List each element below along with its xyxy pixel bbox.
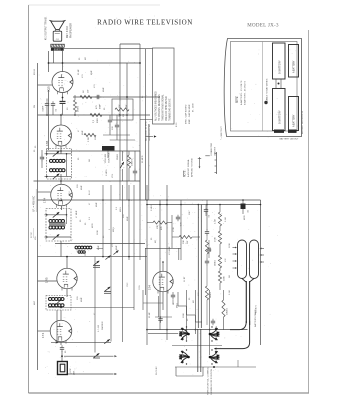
capacitor C18 [206,229,208,232]
capacitor C20 [160,316,162,319]
junction dot y367 [213,366,215,368]
svg-text:05 MF: 05 MF [149,311,151,318]
svg-text:2MEG: 2MEG [117,154,119,160]
resistor R15 vertical [205,286,208,300]
wire y248.3 seg [145,247,181,249]
svg-text:MFD: MFD [92,223,94,228]
svg-text:1M: 1M [229,275,231,278]
svg-text:MEG: MEG [120,207,122,212]
speaker SP1 cone [51,21,64,29]
svg-text:CONTROL: CONTROL [109,152,111,163]
battery A1 rect [289,45,299,78]
wire x143 vertical [142,290,144,310]
wire transformer primary down [48,51,50,72]
wire right bus corner x260 [260,200,262,345]
svg-text:1MEG: 1MEG [215,260,217,266]
svg-text:470: 470 [82,74,84,78]
wire caps to bus [46,99,48,102]
svg-text:PADDER: PADDER [101,321,104,330]
wire L9 leads [76,248,80,250]
wire x158 vertical [157,296,159,317]
capacitor C17 [212,319,214,322]
arrowhead y356 [114,355,117,357]
svg-text:USE 1000 OHM METER: USE 1000 OHM METER [166,96,168,121]
resistor R13 vertical 10 MEG [222,300,225,317]
svg-text:.05: .05 [248,209,250,213]
cable center channel through switch [197,329,199,372]
wire bus y115 [38,114,151,116]
capacitor C3 [52,101,54,104]
wire staircase 2 [186,306,188,315]
battery case inner rect [231,42,298,132]
capacitor C4 100MMF [109,118,111,121]
capacitor C5 [116,123,118,126]
svg-text:05: 05 [65,350,67,353]
svg-text:TO CHASSIS. READINGS: TO CHASSIS. READINGS [158,94,161,121]
svg-text:OSC: OSC [85,251,87,256]
svg-text:3-7 465: 3-7 465 [98,324,100,332]
svg-text:B+67: B+67 [89,189,91,195]
svg-text:ALL VOLTAGES MEASURED: ALL VOLTAGES MEASURED [155,91,158,121]
svg-text:1T4: 1T4 [41,332,45,338]
svg-text:05: 05 [189,297,191,300]
wire V4 bottom [66,289,68,297]
svg-text:MODEL JX-3: MODEL JX-3 [247,24,279,29]
svg-text:1W: 1W [88,89,90,93]
resistor R10 vertical [218,255,221,268]
capacitor C13B plates [104,291,111,293]
svg-text:MF: MF [85,56,87,60]
wire transformer leads down [53,51,55,63]
wire staircase 1 [177,292,179,306]
wire V2 plate up [60,115,62,125]
speaker neck [55,29,57,31]
svg-text:12 BT: 12 BT [184,276,186,282]
resistor R5 10 MEG v [127,155,130,168]
osc coil L7 bobbin [49,297,52,300]
tuning gang C13B arrow [105,287,111,291]
svg-text:10: 10 [67,107,69,110]
resistor R9 vertical [218,231,221,244]
battery B2 rect [273,89,286,131]
svg-text:B1931: B1931 [54,48,62,51]
svg-text:APPLIED TO GRID: APPLIED TO GRID [191,158,194,177]
wire V4 grid left [38,280,58,282]
battery cable bend conductor A to bus [230,321,246,330]
trimmer C14 arrow [94,353,100,357]
svg-text:*: * [224,223,226,224]
svg-text:1R5: 1R5 [45,277,49,283]
wire y151 bus [46,150,140,152]
svg-text:B1931: B1931 [34,68,36,75]
wire x134 vertical [133,185,135,310]
svg-text:CO: CO [56,39,60,41]
dash mark near note [205,155,210,157]
volume control dark pot [102,146,115,151]
cable plug pins right [260,248,262,250]
wire box around V6 right [178,248,180,260]
wire V6 plate up [162,262,164,271]
svg-text:SHOWN IN OFF POSITION: SHOWN IN OFF POSITION [211,369,213,395]
svg-text:RADIO WIRE TELEVISION: RADIO WIRE TELEVISION [97,19,193,27]
svg-text:A 456 KC SIGNAL: A 456 KC SIGNAL [187,158,190,177]
svg-text:47: 47 [78,129,80,132]
svg-text:3Q5: 3Q5 [47,86,51,92]
wire V3 grid [38,191,52,193]
wire switch row divider y345.5 [172,345,222,347]
wire left bus x48.5 mid [48,90,50,150]
pot wiper arrow [120,162,124,168]
svg-text:1 MEG: 1 MEG [106,169,108,176]
wire x160 vertical [159,200,161,330]
small coil L9 [75,246,78,249]
svg-text:47 MMF: 47 MMF [76,210,78,218]
svg-text:B BATTERY: B BATTERY [279,110,282,124]
svg-text:ALL COND. IN MFD: ALL COND. IN MFD [145,121,148,141]
wire x147 vertical [146,185,148,345]
switch S1 pole 4 (bottom-right spider) [210,351,218,357]
wire bus y374 [67,373,114,375]
wire x42 [41,150,43,156]
svg-text:3.3: 3.3 [116,206,118,210]
wire bus y243.5 [55,243,145,245]
svg-text:2W: 2W [187,240,189,244]
wire y367 seg [175,366,256,368]
wire bus y256.6 [38,256,148,258]
svg-text:*: * [150,121,152,122]
svg-text:100: 100 [112,126,114,130]
svg-text:CONNECTED: CONNECTED [211,142,213,156]
wire x186.5 vertical [186,290,188,340]
svg-text:.01MF: .01MF [43,105,45,112]
wire V2 to IFT2 [60,146,62,154]
svg-text:VOLUME: VOLUME [105,153,107,163]
tube V5 1T4 [50,320,72,342]
tube V2 1S5 [51,125,72,146]
cable shield double line [197,205,199,329]
resistor R11 vertical [218,271,221,283]
wire vertical drop x120 [119,44,121,181]
junction dot [48,62,50,64]
wire x129 vertical [128,185,130,260]
IFT1 lead top y214.8 [45,214,67,216]
svg-text:05: 05 [80,219,82,222]
wire IFT2 right vertical [66,154,68,177]
svg-text:.01: .01 [43,156,45,160]
wire x103 vertical [102,185,104,257]
svg-text:ANT.: ANT. [73,370,76,375]
wire x181 vertical [180,200,182,260]
page border frame bottom [29,392,310,394]
junction dots bus y115 [46,114,48,116]
trimmer C23 arrow [105,255,110,259]
svg-text:VOL: VOL [112,173,114,178]
svg-text:220K: 220K [229,243,231,248]
wire y333.6 segment [148,333,178,335]
wire x167 vertical [166,185,168,340]
resistor R12 vertical 470K [205,240,208,254]
osc coil arrow [54,299,62,307]
svg-text:UNLESS NOTED: UNLESS NOTED [149,124,151,141]
svg-text:470K: 470K [210,247,212,252]
svg-text:BATTERY CABLE: BATTERY CABLE [254,309,257,327]
svg-text:27-32: 27-32 [31,232,33,238]
svg-text:100: 100 [77,184,79,188]
wire y317 segment [155,316,172,318]
capacitor C9 470MMF [177,215,179,218]
wire staircase 3 [194,315,196,322]
wire x117 v [116,115,118,123]
IFT1 coil L4 bobbin [49,219,52,222]
wire x120 lower [119,181,121,200]
resistor R14 15K inside box [115,108,129,111]
svg-text:1MEG: 1MEG [78,106,80,112]
tube V1 3Q5 [52,72,73,93]
wire x110 v [109,115,111,118]
wire x209.6 vertical [209,290,211,355]
svg-text:456: 456 [35,236,37,240]
svg-text:I.F. = 456 KC: I.F. = 456 KC [32,196,36,212]
battery plug P2 [288,130,297,133]
wire x238 vertical stub [237,360,239,367]
svg-text:100K: 100K [183,313,185,318]
svg-text:MMF: MMF [96,202,98,207]
battery B1 rect [273,43,286,79]
switch S1 pole 3 (bottom-left spider) [181,351,189,357]
svg-text:100: 100 [77,296,79,300]
wire B+ feed from transformer to note box [64,48,153,50]
capacitor C21 dark under V1 [62,93,64,102]
IFT1 coil L5 bobbin [49,226,52,229]
svg-text:MFD: MFD [244,215,246,220]
svg-text:05: 05 [104,107,106,110]
resistor R4 3.3MEG [84,133,96,136]
svg-text:B+: B+ [142,95,144,98]
svg-text:A BATTERY - 1.5 VOLTS: A BATTERY - 1.5 VOLTS [240,80,243,105]
capacitor C10 [208,247,210,250]
chassis stub symbol [199,157,201,167]
wire left bus x37.5 [37,63,39,370]
svg-text:TUNING 540-1620 KC: TUNING 540-1620 KC [170,98,172,121]
wire bottom links x223 [223,290,225,300]
tube V6 1S4 [153,271,173,291]
svg-text:1S4: 1S4 [148,285,152,290]
svg-text:465: 465 [161,226,163,230]
IFT1 trimmer arrow bottom [53,234,60,239]
wire bus y329.6 [147,329,248,331]
wire C7 leads [134,151,136,170]
svg-text:MMF - CAP IN MMF: MMF - CAP IN MMF [188,104,191,124]
svg-text:MMF: MMF [82,130,84,135]
wire screen line y97 [73,96,160,98]
wire x122.5 vertical [122,185,124,342]
wire resistor chain links [219,205,221,213]
svg-text:1K: 1K [83,90,85,93]
svg-text:CHASSIS: CHASSIS [214,146,217,156]
svg-text:15K: 15K [157,225,159,229]
svg-text:B BATTERY - 45 VOLTS: B BATTERY - 45 VOLTS [244,81,247,105]
page border frame right [308,30,310,393]
svg-text:05: 05 [85,222,87,225]
resistor R6 15K [153,221,167,224]
wire IFT1 bottom [60,241,62,257]
resistor R8 vertical [218,212,221,226]
wire V5 bottom [60,342,62,345]
wire y135 seg [103,134,130,136]
battery A2 rect [289,97,299,131]
capacitor C7 [134,169,136,172]
svg-text:3.3M: 3.3M [225,217,227,222]
svg-text:20K: 20K [183,240,185,244]
cable plug pins left [235,247,237,249]
svg-text:2.2M: 2.2M [215,219,217,224]
wire plate line V1 [49,62,141,64]
wire V5 grid left [38,330,51,332]
svg-text:470K: 470K [215,237,217,242]
resistor R2 grid leak vertical [73,100,76,112]
wire R5 leads [128,151,130,155]
svg-text:10MEG: 10MEG [132,158,134,166]
wire C16 to loop [61,351,63,362]
wire vertical x140 [139,44,141,200]
wire y222.5 stubs [147,222,153,224]
svg-text:1W: 1W [126,105,128,108]
svg-text:MMF: MMF [91,70,93,75]
svg-text:MF: MF [193,299,195,303]
dial cord bracket [216,152,218,174]
IFT2 junction dots [46,153,48,155]
wire IFT1 right vertical [66,209,68,225]
svg-text:15K: 15K [119,104,121,108]
IFT2 trimmer arrow bottom [53,174,60,179]
svg-text:1MEG: 1MEG [210,292,212,298]
battery cable trunk [245,281,247,323]
IF transformer IFT2 dashed box [47,149,72,180]
svg-text:MMF: MMF [81,297,83,302]
capacitor C1 470MMF [95,96,98,98]
battery cable converge [242,279,254,283]
wire switch bracket [175,367,177,376]
svg-text:2.2M: 2.2M [229,290,231,295]
svg-text:100K: 100K [224,276,226,281]
wire vertical x145.5 [145,49,147,200]
svg-text:MEG: MEG [113,227,115,232]
wire vol pot leads [107,151,109,159]
IFT1 junction dots [46,214,48,216]
capacitor C2 0.1MFD [46,101,48,104]
svg-text:MMF: MMF [127,216,129,221]
svg-text:BATTERY LAYOUT B-99: BATTERY LAYOUT B-99 [301,110,304,134]
IFT2 coil L2 primary bobbin [50,159,53,162]
wire x207 vertical [206,200,208,230]
IFT1 lead bottom y237 [45,236,72,238]
svg-text:2.2: 2.2 [93,119,95,123]
wire V4 top [66,257,68,268]
junction dot under V1 [62,97,64,99]
IF transformer IFT1 dashed box [46,209,71,242]
capacitor C12 [172,293,174,296]
svg-text:MMF: MMF [98,245,100,250]
svg-text:220K: 220K [97,230,99,235]
misc junction dots [60,114,62,116]
svg-text:B BATTERY: B BATTERY [279,60,282,74]
battery case divider [262,42,264,132]
svg-text:1W: 1W [123,114,125,117]
svg-text:10MEG: 10MEG [227,308,229,315]
wire y237 stubs [172,236,179,238]
wire y119.5 short [140,119,153,121]
svg-text:MEG: MEG [177,303,179,308]
wire bus y356 [64,355,114,357]
battery cable fork right loop [250,240,259,279]
capacitor C6 [41,155,43,158]
svg-text:MMF: MMF [116,245,118,250]
resistor R7 20K [179,235,192,238]
battery plug P1 [274,130,284,133]
svg-text:ANT: ANT [33,300,36,305]
IFT2 lead bottom y176.4 [45,175,72,177]
svg-text:20K *: 20K * [189,210,191,215]
svg-text:MFD - CAP IN MFD: MFD - CAP IN MFD [185,104,188,124]
osc coil T2 dashed box [46,296,71,311]
junction dot loop top [61,355,63,357]
wire V1 plate top [62,51,64,72]
loop antenna L1 inner [60,364,65,372]
svg-text:BATTERY LAYOUT: BATTERY LAYOUT [279,138,299,141]
svg-text:NOTE :: NOTE : [185,169,187,177]
svg-text:470: 470 [94,84,96,88]
svg-text:MMF: MMF [81,185,83,190]
svg-text:M - 1000: M - 1000 [192,103,194,112]
capacitor C19 [206,259,208,262]
svg-text:NOTE:: NOTE: [237,96,239,103]
capacitor C16 below V5 [61,345,63,348]
svg-text:COIL: COIL [139,284,141,290]
svg-text:100: 100 [123,214,125,218]
page border frame top [29,4,161,6]
svg-text:LOOP: LOOP [70,368,72,374]
svg-text:MET. 4 P.M.: MET. 4 P.M. [67,25,69,38]
IFT2 coil L3 secondary bobbin [50,169,53,172]
svg-text:MMF: MMF [100,103,102,109]
wire x111 vertical [110,185,112,342]
svg-text:05: 05 [103,235,105,238]
svg-text:* = SEE TEXT: * = SEE TEXT [221,125,223,140]
svg-text:B-99: B-99 [176,122,178,127]
wire bottom links x207 [206,236,208,241]
wire bus y204.5 [147,204,261,206]
capacitor C11 dark .05 [241,204,246,210]
svg-text:470 MMF: 470 MMF [169,245,171,255]
wire x172 vertical [171,215,173,248]
svg-text:MEG: MEG [97,118,99,123]
wire x195.4 vertical [194,290,196,334]
wire C8 leads [205,205,207,208]
svg-text:05: 05 [79,57,81,60]
svg-text:05: 05 [78,157,80,160]
svg-text:*: * [195,231,197,232]
trimmer C22 arrow [113,250,118,254]
wire IFT2 bottom to AVC [60,174,62,185]
wire y140 seg [110,139,135,141]
svg-text:22: 22 [173,302,175,305]
IFT2 lead top y153.8 [45,153,72,155]
svg-text:1S5: 1S5 [45,140,49,146]
svg-text:45.3 OUTPUT TRANS.: 45.3 OUTPUT TRANS. [45,16,48,40]
wire y307 bus [48,307,134,309]
junction dots y200 [61,199,63,201]
svg-text:470: 470 [96,105,98,109]
